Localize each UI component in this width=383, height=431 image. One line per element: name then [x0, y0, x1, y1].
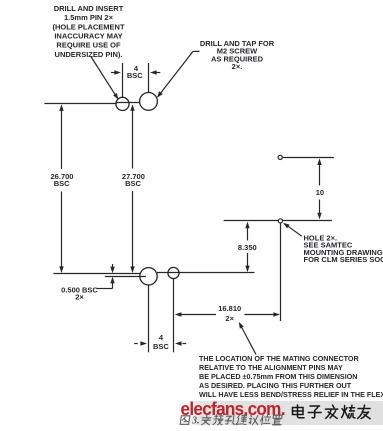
svg-text:FOR CLM SERIES SOCKET: FOR CLM SERIES SOCKET [304, 255, 383, 264]
svg-text:16.810: 16.810 [218, 304, 241, 313]
svg-text:2×: 2× [75, 292, 84, 301]
svg-text:REQUIRE USE OF: REQUIRE USE OF [56, 41, 121, 50]
svg-text:RELATIVE TO THE ALIGNMENT PINS: RELATIVE TO THE ALIGNMENT PINS MAY [199, 363, 343, 372]
svg-text:THE LOCATION OF THE MATING CON: THE LOCATION OF THE MATING CONNECTOR [199, 354, 360, 363]
svg-text:2×.: 2×. [232, 62, 243, 71]
svg-text:(HOLE PLACEMENT: (HOLE PLACEMENT [52, 22, 125, 31]
svg-text:8.350: 8.350 [238, 243, 257, 252]
svg-text:BSC: BSC [125, 179, 141, 188]
svg-text:BSC: BSC [153, 342, 169, 351]
svg-text:2×: 2× [225, 314, 234, 323]
svg-text:INACCURACY MAY: INACCURACY MAY [54, 32, 122, 41]
svg-text:DRILL AND INSERT: DRILL AND INSERT [54, 4, 124, 13]
svg-text:AS DESIRED. PLACING THIS FURTH: AS DESIRED. PLACING THIS FURTHER OUT [199, 381, 352, 390]
svg-text:1.5mm PIN 2×: 1.5mm PIN 2× [64, 13, 114, 22]
svg-text:BSC: BSC [127, 71, 143, 80]
svg-text:UNDERSIZED PIN).: UNDERSIZED PIN). [55, 50, 123, 59]
svg-text:BSC: BSC [54, 179, 70, 188]
svg-text:elecfans.com.: elecfans.com. [181, 398, 285, 419]
svg-text:10: 10 [316, 188, 324, 197]
svg-text:BE PLACED ±0.75mm FROM THIS DI: BE PLACED ±0.75mm FROM THIS DIMENSION [199, 372, 358, 381]
